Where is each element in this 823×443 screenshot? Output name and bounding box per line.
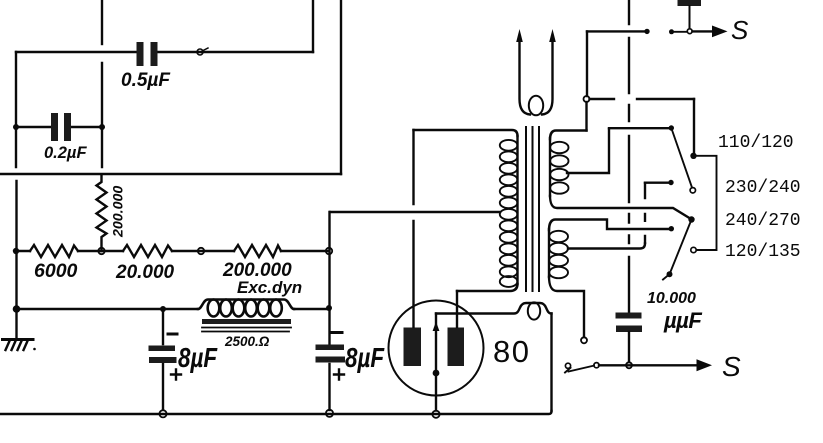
top plug stippled lead	[689, 6, 691, 28]
svg-text:80: 80	[493, 334, 530, 369]
node contact A	[669, 125, 674, 130]
capacitor C5 lead bottom	[628, 332, 630, 362]
node junction (163,309)	[160, 306, 166, 312]
choke L1 core hatched bar	[202, 319, 291, 324]
wire bus y=174	[0, 173, 341, 175]
wire x=586.5 from node circle	[585, 102, 587, 131]
svg-text:8µF: 8µF	[345, 343, 385, 374]
top switch lever	[672, 31, 688, 33]
svg-text:200.000: 200.000	[111, 186, 127, 238]
svg-text:10.000: 10.000	[647, 290, 696, 307]
wire left anode lead x=414 upper	[412, 130, 414, 204]
bus2 y=309 left segment	[16, 308, 198, 310]
arrowhead S top	[712, 26, 728, 38]
transformer T1 lower right winding spine	[548, 229, 550, 277]
node junction (329,308)	[326, 305, 332, 311]
capacitor C3 plus	[171, 370, 181, 380]
wire vertical x=16 upper	[15, 52, 17, 167]
wire 0.2µF row left	[16, 126, 51, 128]
resistor R4 200.000	[234, 245, 281, 257]
choke L1 loops	[208, 300, 282, 317]
arrowhead S bottom	[697, 359, 713, 371]
bottom switch lever	[569, 366, 595, 372]
capacitor C3 plates	[149, 346, 177, 364]
node junction (17,309)	[13, 305, 21, 313]
transformer T1 left winding top lead y=130	[414, 130, 518, 136]
capacitor C3 minus	[168, 333, 177, 336]
transformer T1 left winding loops	[500, 140, 518, 287]
wire tap2 stippled vertical segments	[644, 183, 646, 244]
tube U1 envelope circle	[389, 301, 484, 396]
svg-text:8µF: 8µF	[178, 343, 218, 374]
ground	[3, 338, 34, 341]
wire tap A feed	[567, 129, 609, 173]
node junction (102,251)	[98, 248, 104, 254]
wire vertical x=16 lower to ground	[15, 181, 17, 338]
transformer T1 core lines	[526, 127, 539, 291]
wire vertical x=341 to top edge	[340, 0, 342, 174]
svg-text:S: S	[722, 351, 741, 382]
wire filament output horizontal	[436, 303, 552, 314]
svg-text:120/135: 120/135	[725, 242, 801, 262]
top plug bar	[678, 0, 702, 6]
transformer T1 left winding bottom lead	[457, 284, 518, 291]
wire x=694 down to contact	[693, 99, 695, 152]
node bus circle (329,413)	[326, 410, 333, 417]
node junction (201,251)	[198, 248, 204, 254]
wire tap A stippled horizontal	[609, 127, 668, 129]
wire y=99 segment 2	[637, 98, 694, 100]
wire vertical x=313 to top edge	[312, 0, 314, 52]
transformer T1 upper right winding top lead	[550, 131, 587, 140]
capacitor C4 minus	[332, 331, 342, 334]
lever2 pivot tail	[663, 274, 670, 279]
transformer T1 upper right winding spine	[549, 138, 551, 196]
wire x=587 down	[586, 31, 588, 96]
capacitor C4 plus	[334, 370, 344, 380]
tube U1 filament line	[435, 314, 437, 372]
HT output wire right with arrow	[542, 40, 553, 115]
wire x=629 vertical segments	[628, 0, 630, 312]
capacitor C1 0.5µF plates	[137, 42, 158, 66]
pilot loop 0	[528, 302, 540, 319]
node top lever tip	[669, 29, 674, 34]
svg-text:2500.Ω: 2500.Ω	[224, 334, 270, 349]
wire top horizontal y=52 right of C1	[158, 51, 314, 53]
transformer T1 lower right winding bottom lead	[549, 277, 584, 337]
svg-text:S: S	[731, 15, 749, 45]
node junction (102,127)	[99, 124, 105, 130]
node junction (16,251)	[13, 248, 19, 254]
svg-text:230/240: 230/240	[725, 178, 801, 198]
transformer T1 left winding spine	[516, 136, 518, 284]
transformer T1 lower right winding top lead	[549, 220, 669, 231]
node bus circle (163,414)	[159, 410, 166, 417]
ground period dot	[33, 348, 36, 351]
node contact E	[669, 226, 674, 231]
resistor R1 6000	[30, 245, 78, 257]
node test point at (200,52)	[197, 49, 203, 55]
wire tap y=212 to transformer	[330, 211, 500, 213]
wire to S bottom	[599, 364, 697, 366]
bottom switch pivot tail	[565, 368, 571, 373]
tube U1 left anode	[404, 328, 422, 367]
node contact 110/120	[690, 153, 696, 159]
node junction circle (629,365)	[626, 362, 632, 368]
tube U1 filament node dot	[433, 370, 440, 377]
node terminal circle (584,340)	[581, 337, 587, 343]
svg-text:0.2µF: 0.2µF	[44, 144, 87, 162]
switch lever 2	[670, 222, 691, 274]
svg-text:240/270: 240/270	[725, 211, 801, 231]
bottom switch pivot circle	[565, 363, 570, 368]
svg-text:0.5µF: 0.5µF	[121, 70, 171, 91]
bus1 y=251 wire segments	[16, 250, 30, 252]
resistor R3 20.000	[123, 245, 172, 257]
capacitor C2 0.2µF plates	[51, 113, 71, 141]
svg-text:6000: 6000	[34, 260, 78, 282]
wire y=31 top switch feed	[587, 30, 645, 32]
resistor R2 200.000 vertical	[97, 176, 107, 251]
wire bottom bus y=414	[0, 411, 552, 414]
transformer T1 upper right winding bottom lead	[550, 196, 691, 219]
node top switch fixed contact	[644, 29, 649, 34]
choke L1 core line 2	[202, 331, 289, 333]
wire vertical x=329 from tap corner	[328, 212, 330, 344]
capacitor C4 lead bottom	[328, 364, 330, 410]
node lever2 pivot	[667, 271, 673, 277]
wire left anode lead x=414 lower	[412, 221, 414, 327]
capacitor C4 plates	[316, 345, 346, 363]
choke L1 core line 1	[202, 327, 291, 329]
svg-text:110/120: 110/120	[718, 133, 794, 153]
wire vertical x=551.5 down	[550, 314, 552, 412]
node junction (16,127)	[13, 124, 19, 130]
node bottom switch circle 2	[594, 363, 599, 368]
node junction (329,251)	[326, 248, 332, 254]
node bus circle (436,414)	[432, 411, 439, 418]
wire right anode lead x=457	[456, 291, 458, 327]
tube U1 filament arrow	[433, 322, 440, 332]
svg-text:µµF: µµF	[663, 308, 702, 333]
wire filament to bus	[435, 375, 437, 411]
switch lever 1	[671, 128, 692, 188]
capacitor C3 8µF lead top	[162, 309, 164, 344]
wire arrow to S top	[693, 30, 714, 32]
wire 0.2µF row right	[71, 126, 102, 128]
wire y=99 segment 1	[590, 98, 615, 100]
HT twist loop	[529, 96, 543, 116]
wire top horizontal y=52 left of C1	[16, 51, 137, 53]
transformer T1 lower right winding loops	[549, 231, 568, 278]
node lever1 tip circle	[690, 188, 695, 193]
svg-text:Exc.dyn: Exc.dyn	[237, 278, 302, 297]
capacitor C3 lead bottom	[162, 364, 164, 410]
transformer T1 upper right winding loops	[550, 142, 568, 194]
wire tap2 from loop	[568, 244, 645, 249]
wire tap2 to contact C	[645, 181, 668, 183]
wire vertical x=102 middle segment	[101, 63, 103, 167]
choke L1 Exc.dyn raised section	[198, 300, 294, 310]
node contact C	[668, 180, 673, 185]
capacitor C5 plates	[616, 313, 643, 333]
selector bracket	[694, 156, 717, 250]
tube U1 right anode	[448, 328, 465, 367]
svg-text:20.000: 20.000	[115, 262, 175, 283]
HT output wire left with arrow	[520, 40, 531, 115]
node contact D 240/270	[688, 216, 694, 222]
node top switch pivot circle	[687, 29, 692, 34]
node contact 120/135 open	[691, 247, 696, 252]
bus2 y=309 right segment	[294, 308, 329, 310]
wire vertical x=102 upper segment	[101, 0, 103, 44]
node circle (586.5,99)	[584, 96, 590, 102]
